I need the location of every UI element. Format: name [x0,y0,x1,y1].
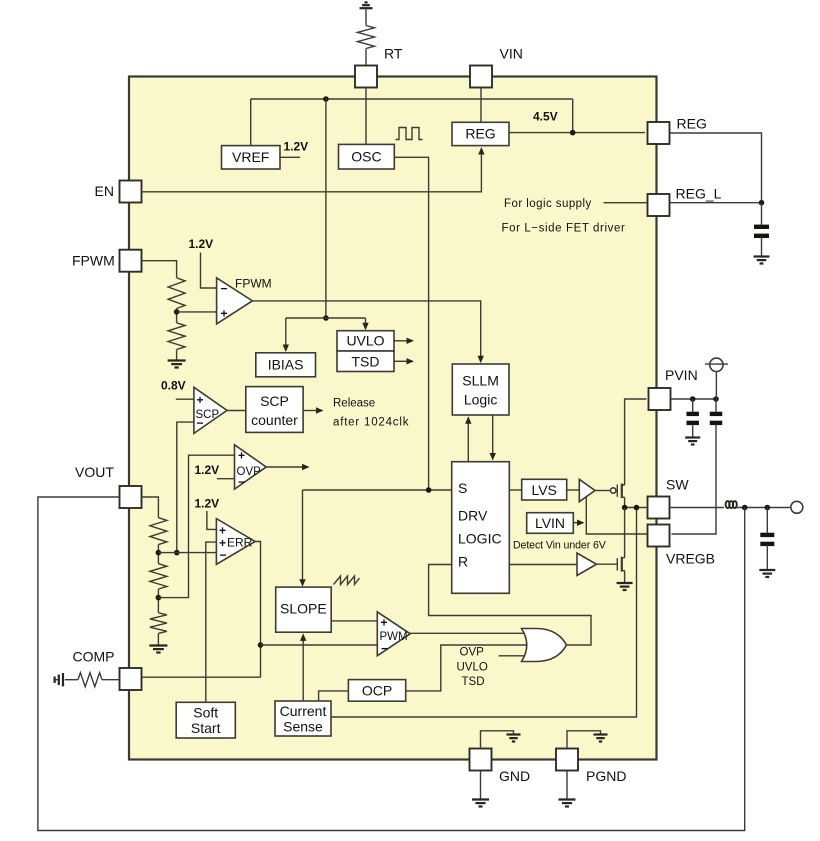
svg-text:after 1024clk: after 1024clk [333,417,409,429]
wire 0.8V to SCP plus [176,398,194,400]
pin FPWM [120,250,142,272]
svg-text:EN: EN [95,183,114,199]
wire OR output loop to R input [429,565,591,646]
svg-text:REG: REG [677,116,707,132]
pin VIN [470,66,492,88]
svg-text:Detect Vin under 6V: Detect Vin under 6V [513,540,607,552]
node junction output cap [765,505,771,511]
ground (internal GND) [507,733,521,735]
svg-text:Soft: Soft [193,705,218,721]
wire DRV to LVS [509,489,521,491]
resistor RT timing [358,26,375,49]
svg-text:−: − [381,642,388,656]
svg-text:OSC: OSC [351,149,381,165]
IC body outline [129,77,657,760]
svg-text:Release: Release [333,398,375,410]
resistor FPWM divider upper [168,278,185,309]
pin REG_L [648,194,670,216]
ground (PVIN cap1) [685,436,700,438]
inductor output choke [726,501,730,508]
node junction IBIAS/UVLO header [323,315,329,321]
svg-text:+: + [197,393,204,407]
svg-text:VOUT: VOUT [75,464,114,480]
wire S line [303,489,452,491]
wire resistor to RT pin [365,49,367,65]
pin COMP [120,668,142,690]
svg-text:FPWM: FPWM [72,253,115,269]
block OSC [339,144,395,169]
node junction current sense tap [634,505,640,511]
svg-text:DRV: DRV [458,508,488,524]
wire DRV to SLLM arrow [467,422,469,462]
wire H FET source to SW [624,497,626,507]
wire divider to FPWM plus [177,311,217,313]
node junction feedback [156,550,162,556]
svg-text:−: − [197,416,204,430]
wire PVIN to H FET drain [625,399,647,485]
svg-text:+: + [238,449,245,463]
wire feedback to SCP minus [177,422,194,552]
wire feedback to ERR minus [158,552,216,554]
svg-text:1.2V: 1.2V [195,497,220,511]
wire note stub [604,202,647,204]
wire OVP tap riser [158,455,234,597]
svg-text:1.2V: 1.2V [284,140,309,154]
ground (L FET source) [617,582,633,584]
wire current sense to SW node [331,508,637,718]
wire SW pin to inductor [671,507,725,509]
pin RT [355,66,377,88]
transistor L-side FET [616,558,618,570]
ground (GND external) [472,798,489,800]
wire inductor to output [736,507,790,509]
wire EN to REG enable [142,152,482,192]
node junction SCP tap [174,550,180,556]
wire OSC output down [394,157,428,490]
svg-text:UVLO: UVLO [457,662,488,674]
pin VREGB [648,525,670,547]
wire DRV R to L driver [509,564,577,566]
svg-text:RT: RT [384,46,403,62]
wire FPWM output to SLLM [252,301,480,358]
svg-text:−: − [221,282,228,296]
wire resistor to capacitor [65,679,78,681]
svg-text:+: + [221,307,228,321]
wire RT ground stem [365,8,367,25]
wire divider to ground [176,350,178,361]
block Soft Start [176,702,235,738]
comparator PWM [377,612,410,656]
wire output cap to ground [766,545,768,570]
svg-text:ERR: ERR [227,536,253,550]
wire L FET drain to SW [624,508,626,558]
pin REG [648,122,670,144]
node junction REG_L [759,200,765,206]
wire GND pin to ground [480,772,482,800]
svg-text:1.2V: 1.2V [195,463,220,477]
wire SLOPE to PWM plus [331,620,377,622]
svg-text:−: − [238,475,245,489]
svg-text:FPWM: FPWM [235,277,272,291]
wire PVIN pin to input node [672,398,717,400]
ground (internal PGND) [594,733,608,735]
resistor VOUT divider R1 [150,518,167,545]
node junction H FET source [622,505,628,511]
wire 1.2V to ERR input [207,511,217,529]
svg-text:LVS: LVS [531,482,556,498]
ground (FPWM divider) [168,359,186,361]
svg-text:REG_L: REG_L [676,186,722,202]
block Current Sense [275,701,331,736]
block LVIN [527,513,574,534]
svg-text:R: R [458,554,468,570]
wire current sense to SLOPE [302,639,304,702]
svg-text:Current: Current [280,703,327,719]
ground (REG_L cap) [754,255,770,257]
svg-text:Logic: Logic [464,392,497,408]
resistor FPWM divider lower [168,323,185,350]
capacitor PVIN bypass 1 [686,412,699,416]
wire R3 to ground [157,633,159,645]
wire LVIN output arrow [573,522,579,524]
resistor COMP compensation [78,673,102,687]
svg-text:For L−side FET driver: For L−side FET driver [502,223,626,235]
wire bus riser to REG output [572,99,574,133]
node junction PVIN input [713,396,719,402]
wire feedback VOUT loop [38,497,745,831]
ground (top of RT resistor, inverted) [360,7,373,9]
wire OCP to OR gate [406,645,530,691]
icon clock waveform [396,128,423,140]
wire soft start to ERR input [206,542,217,702]
wire REG output to REG pin [509,132,645,134]
wire GND internal [481,731,514,748]
node junction REG output [570,130,576,136]
pin SW [648,497,670,519]
wire bus down to IBIAS/UVLO header [325,99,327,318]
wire SCP counter output arrow [303,410,318,412]
wire PGND pin to ground [566,772,568,800]
wire VIN to REG [480,89,482,123]
amplifier ERR [216,519,255,565]
svg-text:+: + [381,616,388,630]
block SCP counter [246,387,303,433]
svg-text:−: − [220,548,227,562]
block SLLM Logic [452,364,509,415]
svg-text:Sense: Sense [283,719,323,735]
wire cap2 stem [715,399,717,412]
terminal input supply circle [710,358,723,371]
wire OVP output arrow [266,466,304,468]
wire 4.5V bus horizontal [251,98,573,100]
wire COMP pin to resistor [102,679,120,681]
transistor H-side FET gate bubble [611,488,616,493]
svg-text:SW: SW [666,477,689,493]
wire L FET source to ground [624,571,626,583]
wire COMP pin to ERR node [142,676,261,678]
wire ERR output down [255,542,260,678]
block SLOPE [276,587,332,632]
wire driver to gate bubble [595,490,610,492]
capacitor REG_L bypass [754,225,769,229]
svg-text:OVP: OVP [460,647,485,659]
comparator OVP [235,445,267,489]
comparator FPWM [217,278,253,324]
svg-text:OCP: OCP [362,682,392,698]
node junction OVP tap [156,595,162,601]
wire into UVLO [365,318,367,325]
wire 1.2V to OVP minus [217,478,235,480]
wire cap1 to ground [692,424,694,437]
wire protection stub to OR [499,655,527,657]
wire SCP to counter [227,410,246,412]
capacitor output [760,533,774,537]
ground (VOUT divider) [149,644,167,646]
wire IBIAS/UVLO header [286,317,366,319]
wire COMP node to PWM minus [261,644,378,646]
wire divider junction [176,309,178,323]
wire input circle down [715,372,717,400]
wire into IBIAS [285,318,287,347]
svg-text:VREGB: VREGB [666,551,715,567]
wire REG_L to capacitor [761,203,763,225]
svg-text:IBIAS: IBIAS [268,356,304,372]
svg-text:REG: REG [465,125,495,141]
node junction on 4.5V bus [323,96,329,102]
svg-text:VIN: VIN [500,46,523,62]
wire R1 to R2 [157,545,159,564]
wire bootstrap cap to VREGB [672,424,717,534]
ground (output cap) [759,569,775,571]
wire capacitor to ground [761,237,763,256]
wire UVLO output arrow [394,340,409,342]
node junction S line [426,487,432,493]
pin PGND [556,749,578,771]
wire TSD output arrow [394,360,409,362]
icon sawtooth at SLOPE [334,576,360,585]
capacitor COMP compensation [62,673,64,686]
wire output cap stem [766,508,768,533]
svg-text:GND: GND [499,768,530,784]
resistor VOUT divider R2 [150,564,167,589]
wire SLLM to DRV arrow [492,415,494,456]
wire REG_L pin to rail [671,202,762,204]
node junction COMP node [258,642,264,648]
wire cap1 stem [692,399,694,412]
wire driver to L FET gate [597,563,618,565]
svg-text:VREF: VREF [232,149,269,165]
block VREF [222,146,281,169]
pin VOUT [120,486,142,508]
block TSD [337,351,394,372]
node junction FPWM divider [174,309,180,315]
pin GND [470,749,492,771]
pin EN [120,181,142,203]
gate OR protection [522,629,567,662]
wire PWM output to OR [410,632,526,634]
block DRV LOGIC [452,462,510,594]
terminal output circle [791,501,803,513]
buffer L-side driver [577,553,597,576]
wire VREGB to H driver supply [586,497,646,534]
wire S line to SLOPE [302,490,304,582]
wire RT to OSC [365,89,367,145]
wire REG pin to external rail [671,133,762,203]
svg-text:LVIN: LVIN [535,515,565,531]
transistor H-side FET [616,485,618,497]
wire SW node internal [625,507,647,509]
svg-text:SLLM: SLLM [462,373,499,389]
wire VREF 1.2V stub [280,156,300,158]
block IBIAS [256,353,316,377]
svg-text:Start: Start [191,720,221,736]
wire VREF riser [250,99,252,146]
capacitor bootstrap VREGB [710,412,723,416]
block OCP [348,680,405,702]
resistor VOUT divider R3 [150,613,167,634]
svg-text:SCP: SCP [260,393,289,409]
wire VOUT to divider [142,497,159,518]
svg-text:COMP: COMP [73,649,115,665]
wire LVS to H driver [567,489,580,491]
wire current sense to OCP [319,691,349,701]
wire FPWM pin to divider [142,261,177,278]
pin PVIN [649,388,671,410]
svg-text:TSD: TSD [462,676,485,688]
wire 1.2V to FPWM minus [201,253,217,289]
svg-text:0.8V: 0.8V [161,379,186,393]
block LVS [522,479,567,500]
node junction PVIN cap1 [690,396,696,402]
svg-text:1.2V: 1.2V [189,237,214,251]
svg-text:UVLO: UVLO [346,333,384,349]
block REG [452,122,509,145]
svg-text:SLOPE: SLOPE [280,601,327,617]
svg-text:For logic supply: For logic supply [504,198,592,210]
svg-text:TSD: TSD [352,353,380,369]
node junction feedback tap [742,505,748,511]
svg-text:4.5V: 4.5V [533,110,558,124]
svg-text:PVIN: PVIN [665,367,698,383]
comparator SCP [194,387,227,433]
ground (PGND external) [559,798,576,800]
wire PGND internal [567,731,601,748]
wire R2 to R3 [157,589,159,613]
block UVLO [337,331,394,351]
svg-text:S: S [458,480,467,496]
svg-text:PGND: PGND [586,768,626,784]
buffer H-side driver [579,479,595,501]
svg-text:counter: counter [251,412,298,428]
svg-text:LOGIC: LOGIC [458,531,502,547]
